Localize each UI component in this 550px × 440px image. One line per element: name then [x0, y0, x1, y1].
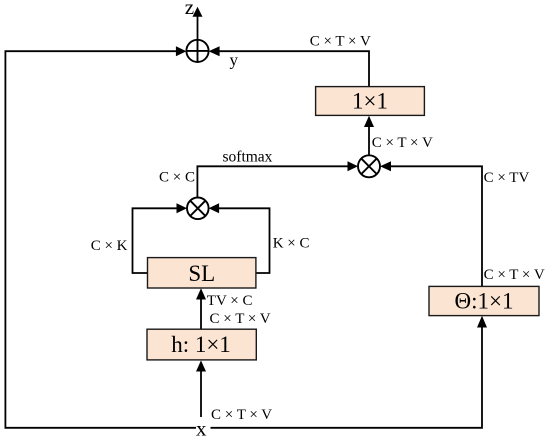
conv box theta 1x1: [429, 286, 539, 315]
arrowhead into SL box bottom: [196, 288, 206, 299]
wire multiplier2 to 1x1 box: [368, 127, 370, 155]
arrowhead into h box bottom: [196, 360, 206, 371]
multiplier2 circle times: [358, 155, 380, 177]
wire top from 1x1 box to adder: [220, 51, 370, 86]
arrowhead into multiplier2 right: [380, 161, 391, 171]
svg-text:C × T × V: C × T × V: [210, 311, 271, 327]
wire left feedback loop (x to adder): [5, 51, 196, 428]
svg-text:C × K: C × K: [91, 238, 128, 254]
arrowhead into theta box bottom: [477, 316, 487, 328]
svg-text:C × TV: C × TV: [484, 170, 530, 186]
svg-text:C × T × V: C × T × V: [310, 34, 371, 50]
arrowhead into adder right side: [209, 46, 220, 56]
svg-text:1×1: 1×1: [352, 89, 388, 114]
wire h box to SL box: [200, 300, 202, 330]
arrowhead into multiplier1 left: [177, 203, 188, 213]
svg-text:TV × C: TV × C: [207, 293, 253, 309]
svg-text:y: y: [230, 51, 239, 70]
svg-text:x: x: [196, 416, 207, 440]
wire bottom from x to theta branch: [211, 328, 483, 428]
arrowhead z output: [193, 7, 203, 17]
wire x to h box: [200, 372, 202, 418]
svg-text:K × C: K × C: [273, 236, 310, 252]
arrowhead into 1x1 box bottom: [364, 116, 374, 127]
wire SL loop right: [219, 208, 270, 273]
multiplier1 circle times: [187, 198, 209, 220]
arrowhead into adder left side: [176, 46, 187, 56]
wire SL loop left: [133, 208, 177, 273]
adder circle plus: [186, 40, 208, 62]
svg-text:SL: SL: [188, 261, 215, 286]
svg-text:C × T × V: C × T × V: [484, 267, 545, 283]
wire softmax path multiplier1 to multiplier2: [197, 166, 347, 197]
svg-text:h: 1×1: h: 1×1: [171, 332, 231, 357]
svg-text:C × T × V: C × T × V: [372, 135, 433, 151]
svg-text:Θ:1×1: Θ:1×1: [455, 289, 514, 314]
box SL: [148, 258, 256, 288]
wire theta branch to multiplier2: [391, 166, 482, 286]
conv box 1x1: [316, 87, 425, 116]
svg-text:C × C: C × C: [159, 170, 195, 186]
svg-text:z: z: [185, 0, 194, 19]
wire z output: [197, 16, 199, 40]
svg-text:softmax: softmax: [223, 149, 273, 166]
svg-text:C × T × V: C × T × V: [211, 407, 272, 423]
arrowhead into multiplier2 left: [348, 161, 359, 171]
conv box h 1x1: [147, 329, 256, 360]
arrowhead into multiplier1 right: [209, 203, 220, 213]
